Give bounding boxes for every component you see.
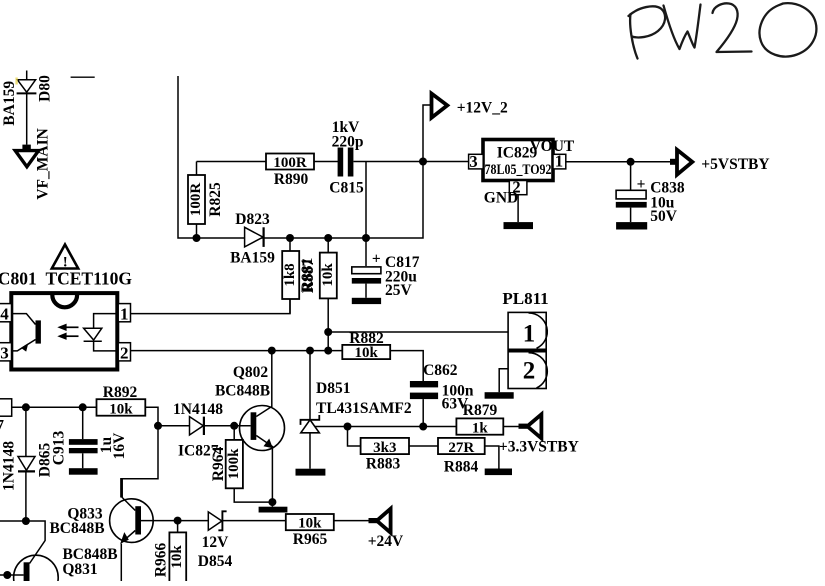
node junction R825 bottom on rail: [193, 234, 201, 242]
svg-text:2: 2: [120, 344, 129, 363]
wire 3k3 to 27R: [409, 445, 438, 447]
svg-text:78L05_TO92: 78L05_TO92: [485, 161, 552, 178]
svg-text:3: 3: [469, 152, 477, 171]
warning triangle: [52, 245, 78, 271]
wire C862 bottom: [422, 399, 424, 426]
resistor R965: [286, 514, 334, 548]
diode D865 1N4148: [0, 407, 53, 521]
svg-text:Q831: Q831: [62, 561, 97, 578]
node TL431 cathode: [306, 347, 314, 355]
svg-text:R879: R879: [463, 402, 498, 419]
diode D854 12V zener: [198, 511, 233, 570]
svg-text:BC848B: BC848B: [215, 383, 270, 400]
svg-text:C913: C913: [50, 431, 67, 466]
resistor R881 1k8: [282, 238, 299, 314]
svg-text:IC801 TCET110G: IC801 TCET110G: [0, 269, 132, 289]
resistor R884 27R: [438, 438, 485, 476]
transistor Q802 BC848B: [215, 351, 285, 507]
node PL811 pin1 branch: [324, 328, 332, 336]
resistor R883 3k3: [361, 438, 409, 472]
svg-text:R825: R825: [207, 182, 224, 217]
ground C838: [616, 222, 647, 229]
shunt regulator D851 TL431: [301, 351, 412, 469]
svg-text:1N4148: 1N4148: [173, 401, 223, 418]
svg-text:R965: R965: [293, 531, 328, 548]
wire to PL811 pin 1: [328, 331, 508, 333]
wire vertical feed + main rail to +12V line: [178, 76, 432, 238]
svg-text:D854: D854: [198, 553, 233, 570]
node R964 to emitter: [268, 498, 276, 506]
svg-text:R966: R966: [152, 543, 169, 578]
svg-text:1N4148: 1N4148: [0, 441, 17, 491]
capacitor C817: [352, 238, 420, 299]
svg-text:10k: 10k: [169, 545, 185, 569]
ground C817: [352, 298, 381, 304]
node D865 top: [22, 403, 30, 411]
svg-text:BC848B: BC848B: [49, 520, 104, 537]
node divider tap: [344, 423, 352, 431]
node C862 bottom: [419, 423, 427, 431]
svg-text:C815: C815: [329, 180, 364, 197]
wire TL431 to R879: [315, 426, 457, 428]
svg-text:12V: 12V: [202, 534, 230, 551]
svg-text:1: 1: [120, 305, 129, 324]
wire R882 to C862: [390, 351, 423, 381]
ground Q802 emitter: [259, 507, 288, 513]
node D865 bottom: [22, 517, 30, 525]
svg-text:27R: 27R: [448, 440, 474, 456]
svg-text:10k: 10k: [109, 401, 133, 417]
svg-text:10k: 10k: [320, 263, 336, 287]
diode D823: [230, 211, 275, 267]
node Q802 collector: [268, 347, 276, 355]
svg-text:VF_MAIN: VF_MAIN: [35, 128, 52, 199]
power arrow +5VSTBY: [670, 150, 770, 175]
svg-text:TL431SAMF2: TL431SAMF2: [316, 400, 412, 417]
node IC827 anode: [154, 422, 162, 430]
capacitor C913: [50, 407, 128, 468]
pin 2 IC829: [484, 178, 527, 207]
svg-text:2: 2: [523, 358, 536, 385]
node C817 top: [362, 234, 370, 242]
svg-text:D80: D80: [36, 75, 53, 102]
svg-text:10k: 10k: [355, 345, 379, 361]
optocoupler IC801 TCET110G: [11, 293, 117, 369]
node Q831 base: [3, 571, 11, 579]
power arrow +12V_2: [432, 94, 448, 118]
node on +12V vertical: [419, 158, 427, 166]
svg-text:PL811: PL811: [502, 289, 548, 308]
capacitor C838: [616, 162, 685, 225]
wire divider tap to 3k3: [348, 427, 361, 447]
wire IC829 gnd: [517, 195, 519, 222]
svg-text:+: +: [372, 251, 381, 268]
svg-text:R890: R890: [274, 171, 309, 188]
svg-text:D823: D823: [235, 211, 270, 228]
resistor R825: [188, 162, 224, 239]
ground R884: [485, 469, 512, 476]
ground IC829: [504, 222, 534, 229]
resistor R892: [97, 384, 146, 418]
wire opto pin2 net: [131, 350, 343, 352]
resistor R882: [342, 330, 390, 361]
svg-text:1k: 1k: [472, 420, 489, 436]
wire Q833 base: [141, 520, 208, 522]
svg-text:100R: 100R: [273, 155, 307, 171]
ground C913: [69, 468, 98, 475]
pin 4 opto: [0, 304, 12, 324]
pin 3 IC829: [469, 152, 484, 171]
op-amp regulator IC829 78L05: [483, 138, 575, 181]
node 1k8 top: [286, 234, 294, 242]
svg-text:GND: GND: [484, 190, 518, 207]
capacitor C862: [410, 362, 474, 413]
node 10k bottom: [324, 347, 332, 355]
svg-text:+5VSTBY: +5VSTBY: [701, 156, 769, 173]
pin 3 opto: [0, 343, 12, 363]
node R966 top: [174, 517, 182, 525]
svg-text:10k: 10k: [298, 516, 322, 532]
wire D854 to R965: [222, 520, 285, 522]
svg-text:3: 3: [0, 344, 9, 363]
wire branch down to rail: [365, 162, 367, 239]
resistor R879: [456, 402, 503, 436]
svg-text:7: 7: [0, 417, 4, 434]
svg-text:+12V_2: +12V_2: [457, 100, 508, 117]
node C838 top: [627, 158, 635, 166]
node R964 top: [230, 422, 238, 430]
svg-text:25V: 25V: [385, 282, 413, 299]
svg-text:R881: R881: [299, 258, 316, 292]
svg-text:+24V: +24V: [368, 533, 404, 550]
svg-text:BA159: BA159: [1, 81, 18, 126]
node C913 top: [79, 403, 87, 411]
svg-text:100k: 100k: [226, 448, 242, 480]
wire top rail R825 to IC829 pin3: [197, 161, 267, 163]
svg-text:16V: 16V: [111, 432, 128, 460]
power arrow +24V: [368, 509, 404, 550]
wire 27R to ground: [485, 446, 499, 469]
svg-text:50V: 50V: [650, 208, 678, 225]
wire left rail to R892: [12, 406, 97, 408]
wire diode to Q802 base: [204, 425, 251, 427]
svg-text:1: 1: [523, 321, 536, 348]
transistor Q833 BC848B: [49, 479, 153, 581]
wire IC829 output: [566, 161, 670, 163]
ground VF_MAIN: [15, 145, 38, 167]
wire stub top-left: [71, 76, 95, 78]
power arrow +3.3VSTBY: [499, 414, 579, 455]
pin 1 opto: [118, 304, 130, 324]
wire node to diode: [158, 425, 190, 427]
svg-text:3k3: 3k3: [373, 440, 396, 456]
light arrows opto: [57, 324, 78, 340]
svg-text:1: 1: [555, 152, 563, 171]
svg-text:4: 4: [0, 305, 9, 324]
svg-text:R892: R892: [103, 384, 138, 401]
svg-text:D851: D851: [316, 380, 350, 397]
svg-text:220p: 220p: [332, 134, 364, 151]
svg-text:C862: C862: [423, 362, 458, 379]
pin 1 IC829: [553, 152, 566, 171]
connector PL811: [502, 289, 548, 389]
svg-text:+: +: [637, 176, 646, 193]
svg-text:R884: R884: [444, 459, 479, 476]
svg-text:1k8: 1k8: [282, 263, 298, 286]
svg-text:+3.3VSTBY: +3.3VSTBY: [499, 439, 579, 456]
phototransistor inside opto: [11, 314, 41, 352]
node 10k top: [324, 234, 332, 242]
pin box left edge: [0, 399, 12, 416]
label R887 overlapped R881: [299, 258, 317, 293]
svg-text:100R: 100R: [188, 183, 204, 217]
LED inside opto: [84, 314, 119, 351]
ground PL811 pin2: [485, 392, 514, 399]
diode D80: [17, 71, 37, 94]
transistor Q831 BC848B: [0, 546, 118, 586]
handwritten note PW20: [629, 3, 817, 58]
resistor R966 10k: [152, 521, 186, 585]
wire D80 to VF_MAIN: [26, 93, 28, 144]
wire R879 to arrow: [503, 426, 519, 428]
svg-text:R964: R964: [210, 447, 227, 482]
svg-text:R883: R883: [366, 455, 401, 472]
svg-text:VOUT: VOUT: [530, 138, 575, 155]
capacitor C815: [329, 119, 364, 197]
diode IC827 1N4148: [173, 401, 223, 460]
highlighter mark: [15, 78, 17, 85]
resistor R887 10k: [320, 238, 337, 351]
wire R965 to arrow: [334, 520, 370, 522]
ground TL431: [296, 469, 326, 476]
wire bottom rail: [0, 521, 45, 564]
svg-text:BA159: BA159: [230, 250, 275, 267]
svg-text:Q802: Q802: [233, 364, 269, 381]
pin 2 opto: [118, 343, 130, 363]
wire PL811 pin2 to ground: [499, 369, 508, 392]
resistor R890: [266, 154, 314, 189]
resistor R964 100k: [210, 426, 273, 502]
wire opto pin1 to 1k8: [131, 299, 291, 314]
wire R892 to IC827 node and down to Q833 collector: [121, 407, 158, 497]
